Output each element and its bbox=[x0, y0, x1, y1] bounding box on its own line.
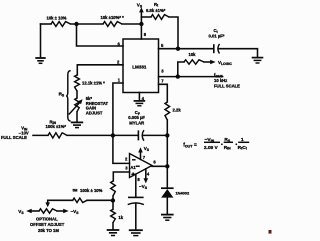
op-amp pin 4 -Vs arrow bbox=[139, 169, 150, 190]
ground G7 (1k) bbox=[107, 230, 120, 236]
resistor R7 100k ±10% (5M) bbox=[73, 188, 103, 203]
label Vin bbox=[1, 126, 29, 141]
svg-text:1N4002: 1N4002 bbox=[176, 191, 190, 196]
brace RS bbox=[59, 71, 71, 122]
wire Vin lead bbox=[33, 134, 48, 136]
svg-text:OPTIONAL: OPTIONAL bbox=[36, 217, 58, 222]
wire J6 to CF bbox=[113, 134, 138, 136]
resistor RIN 100k ±1% bbox=[46, 119, 68, 138]
wire RIN to J6 bbox=[67, 134, 113, 136]
IC U1 LM331 bbox=[123, 39, 159, 93]
wire C2 to ground bbox=[135, 203, 137, 229]
wire 2.2k to J5 bbox=[166, 120, 168, 135]
wire top rail mid bbox=[71, 23, 104, 25]
node J2 (Vs junction) bbox=[139, 22, 143, 26]
ground G2 (RS chain) bbox=[71, 122, 83, 127]
resistor R4 2.2k bbox=[165, 102, 181, 120]
wire R5 to J8 bbox=[112, 196, 114, 201]
resistor R6 1k bbox=[111, 201, 124, 223]
svg-text:20k TO 1M: 20k TO 1M bbox=[38, 228, 59, 233]
wire pin 2 row bbox=[77, 65, 123, 75]
wire top rail left bbox=[41, 23, 52, 25]
svg-text:2.2k: 2.2k bbox=[173, 108, 182, 113]
wire top rail right bbox=[122, 23, 141, 25]
op-amp A1 bbox=[130, 154, 153, 178]
label fout full scale bbox=[214, 72, 240, 88]
svg-text:10k ±10%* *: 10k ±10%* * bbox=[101, 15, 125, 20]
wire from J1 down to pin 6 bbox=[77, 24, 124, 46]
wire Rt branch bbox=[141, 17, 178, 49]
pin 4 wire bbox=[138, 93, 140, 101]
wire op-amp output bbox=[152, 165, 167, 167]
capacitor C2 (comp, below op-amp) bbox=[128, 197, 144, 204]
svg-text:10k: 10k bbox=[189, 52, 197, 57]
node J7 (output junction) bbox=[165, 164, 169, 168]
resistor Rt 6.8k ±1% bbox=[146, 2, 169, 20]
wire pin 7 to 2.2k bbox=[159, 84, 168, 102]
svg-text:2.09 V: 2.09 V bbox=[204, 145, 219, 151]
svg-text:10 kHz: 10 kHz bbox=[214, 78, 227, 83]
wire Vlogic branch bbox=[178, 62, 184, 77]
svg-text:OFFSET ADJUST: OFFSET ADJUST bbox=[30, 222, 65, 227]
svg-text:FULL SCALE: FULL SCALE bbox=[1, 135, 27, 140]
ground G5 (C2) bbox=[129, 230, 143, 235]
svg-text:100k ± 10%: 100k ± 10% bbox=[80, 188, 103, 193]
svg-text:1k: 1k bbox=[118, 215, 123, 220]
svg-text:5M: 5M bbox=[73, 189, 78, 193]
wire rheostat to ground bbox=[76, 112, 78, 122]
resistor R3 10k (pull-up) bbox=[184, 52, 204, 64]
ground G6 (diode) bbox=[161, 215, 174, 221]
op-amp pin 7 Vs arrow bbox=[138, 146, 150, 160]
svg-text:100k ±1%*: 100k ±1%* bbox=[46, 124, 67, 129]
node J4 (pin 3 junction) bbox=[176, 74, 180, 78]
wire + arrow pot right -Vs bbox=[57, 209, 79, 216]
ground G1 (left of top rail) bbox=[35, 24, 45, 63]
node J8 (bias junction) bbox=[111, 198, 115, 202]
wire pin2 drop to op-amp bbox=[113, 135, 130, 163]
node J6 (integrator input) bbox=[111, 133, 115, 137]
wire R7 row bbox=[48, 200, 113, 203]
ground G4 (Ct) bbox=[252, 58, 264, 63]
rheostat 5k gain adjust bbox=[69, 96, 109, 116]
diode D1 1N4002 bbox=[161, 188, 190, 197]
svg-text:6.8k ±1%*: 6.8k ±1%* bbox=[146, 8, 166, 13]
wire Ct to ground bbox=[219, 49, 258, 57]
svg-text:10k ± 10%: 10k ± 10% bbox=[47, 16, 67, 21]
pin 1 wire bbox=[113, 83, 123, 135]
resistor RS1 12.1k ±1% bbox=[75, 75, 106, 91]
ground G3 (pin 4) bbox=[134, 101, 146, 106]
wire pin 5 row bbox=[159, 48, 214, 50]
svg-text:FULL SCALE: FULL SCALE bbox=[214, 84, 240, 89]
potentiometer offset adjust bbox=[30, 209, 65, 233]
resistor R2 10k ±10%** bbox=[101, 15, 125, 26]
wire J5 down to output node bbox=[166, 135, 168, 187]
node J5 (CF right junction) bbox=[165, 133, 169, 137]
svg-text:0.01 µF*: 0.01 µF* bbox=[209, 34, 225, 39]
node J3 (pin 5 junction) bbox=[176, 47, 180, 51]
formula fout bbox=[183, 137, 249, 151]
wire + arrow pot left Vs bbox=[18, 209, 39, 215]
op-amp pin 8 comp bbox=[136, 174, 141, 197]
resistor R5 (pin3 bias) bbox=[111, 181, 116, 196]
wire + arrow to Vlogic bbox=[204, 60, 232, 66]
svg-text:LM331: LM331 bbox=[132, 65, 147, 70]
wire CF to J5 bbox=[143, 134, 167, 136]
svg-text:12.1k ±1% *: 12.1k ±1% * bbox=[82, 81, 105, 86]
capacitor CF 0.005uF mylar bbox=[128, 110, 145, 141]
wiper arrow down bbox=[45, 202, 50, 207]
node J1 (top rail junction) bbox=[74, 22, 78, 26]
wire pin 8 drop bbox=[140, 24, 142, 39]
op-amp pin labels 2 3 bbox=[125, 156, 128, 170]
wire op-amp pin3 row bbox=[113, 172, 129, 181]
resistor R1 10k ±10% bbox=[47, 16, 71, 27]
wire 1k to ground bbox=[112, 223, 114, 230]
wire RS1 to rheostat bbox=[76, 91, 78, 98]
svg-text:MYLAR: MYLAR bbox=[129, 120, 144, 125]
wire diode to ground bbox=[166, 198, 168, 214]
power Vs arrow (top) bbox=[137, 3, 144, 24]
page mark bbox=[269, 230, 272, 234]
capacitor Ct 0.01uF bbox=[209, 28, 225, 53]
svg-text:ADJUST: ADJUST bbox=[86, 110, 103, 115]
wire pin 3 row bbox=[159, 76, 223, 78]
